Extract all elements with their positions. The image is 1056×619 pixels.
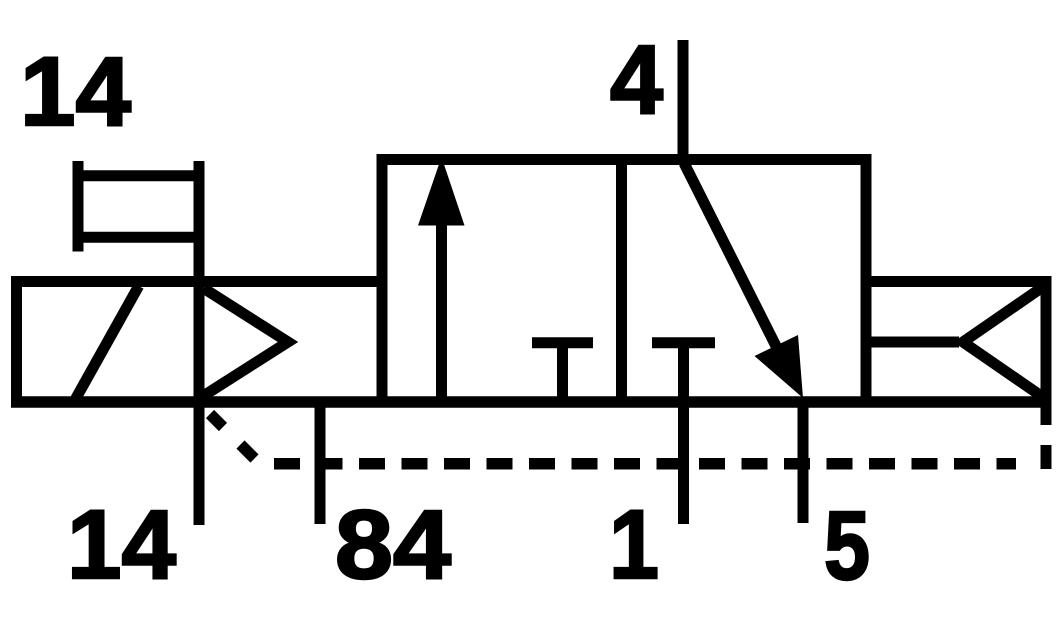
bottom rail	[11, 396, 1052, 408]
svg-text:5: 5	[824, 491, 870, 600]
svg-text:14: 14	[67, 490, 176, 599]
solenoid slash	[76, 286, 139, 399]
T port closed symbol 2 bar	[652, 337, 715, 348]
up arrow head	[418, 157, 465, 226]
dashed pilot line diagonal dash 2	[241, 445, 255, 459]
svg-text:1: 1	[609, 490, 659, 599]
valve position box 1 (left square)	[382, 160, 622, 403]
port 5 riser	[798, 398, 809, 523]
dashed pilot line diagonal dash 1	[210, 414, 223, 427]
svg-text:14: 14	[20, 37, 131, 146]
port 4 riser	[678, 40, 689, 164]
pilot return symbol left tick	[73, 161, 84, 252]
pilot amplifier box	[199, 282, 382, 403]
dashed pilot line corner dash	[1041, 445, 1052, 469]
right edge extension below rail	[1041, 398, 1052, 425]
diagonal arrow head	[755, 335, 804, 398]
solenoid box (pilot solenoid actuator)	[17, 282, 200, 403]
pilot return symbol bottom bar	[73, 232, 205, 243]
port 84 riser	[315, 402, 326, 524]
pilot return symbol top bar	[73, 170, 205, 181]
port 1 wire (T stem + riser)	[678, 343, 689, 524]
dashed pilot line horizontal	[274, 458, 1016, 470]
svg-text:4: 4	[610, 25, 663, 134]
T port closed symbol 1 bar	[532, 337, 593, 348]
valve position box 2 (right square)	[622, 160, 867, 403]
svg-text:84: 84	[335, 490, 451, 599]
spring-return pilot box (right)	[866, 282, 1046, 403]
main vertical wire at port 14	[194, 161, 205, 525]
T port closed symbol 1 stem	[557, 343, 568, 400]
diagonal arrow shaft (flow path 2)	[684, 163, 783, 360]
right box mid wire	[866, 337, 959, 348]
right pilot triangle (points left)	[963, 284, 1047, 400]
pilot triangle (points right)	[204, 289, 288, 396]
up arrow shaft (flow path 1)	[436, 220, 447, 404]
